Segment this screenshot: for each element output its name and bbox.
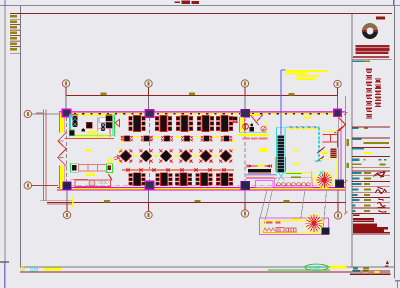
stair treads black — [278, 136, 285, 173]
B row line gray — [32, 113, 63, 115]
grid stems top: red above dim line, gray below — [66, 87, 338, 95]
red shelf bars — [323, 132, 338, 148]
basin white rect — [99, 118, 106, 123]
A row line red — [32, 185, 59, 187]
empty magenta counter box — [256, 180, 274, 187]
row y138 — [352, 137, 390, 139]
svg-text:比例: 比例 — [30, 266, 39, 273]
annex red text marks — [266, 222, 273, 224]
yellow inner outline — [263, 220, 321, 233]
left wall yellow strip (lower) — [60, 166, 64, 190]
top wall black mullion ticks — [74, 113, 333, 115]
right wall door red diagonals — [335, 118, 346, 134]
small black block bottom-left of suite — [70, 130, 75, 135]
inner red frame bottom — [20, 271, 390, 273]
suite bottom lines — [74, 134, 110, 136]
magenta outline — [260, 218, 329, 235]
row3 diamond tables — [119, 149, 132, 162]
closet black cabinet with X — [72, 116, 77, 127]
yellow edge dashes left of shaft — [274, 131, 276, 141]
red inner vline — [243, 119, 245, 131]
row4 top red chair-line with yellow dashes — [130, 169, 216, 171]
cyan dashed vertical wall — [318, 128, 320, 162]
top-right blue tick — [393, 0, 395, 6]
red scallop dishes — [263, 228, 297, 233]
yellow dash — [86, 174, 95, 176]
row2 yellow dashes — [120, 136, 235, 142]
red arrows — [114, 155, 121, 160]
column B4 top-right — [334, 109, 342, 116]
pink text row — [243, 137, 268, 139]
yellow circle symbol — [108, 159, 112, 163]
right wall — [338, 117, 340, 182]
olive label — [291, 176, 301, 178]
top wall yellow window band — [72, 113, 333, 115]
right cabinet blocks — [106, 116, 112, 122]
red slash — [108, 174, 112, 180]
top-left blue tick — [4, 0, 6, 6]
grid bubble 4 bottom — [334, 212, 341, 219]
column A2 — [145, 181, 154, 189]
left vertical dim double lines — [43, 110, 45, 201]
yellow top bar of shelf — [324, 131, 338, 133]
spiral stair starburst — [305, 215, 322, 232]
bottom dim texts — [104, 200, 110, 202]
yellow circle marker — [21, 266, 25, 270]
top wall magenta line — [59, 111, 345, 113]
yellow top dash — [292, 218, 301, 220]
section blue line — [280, 70, 282, 135]
red door diagonals inside kitchen — [317, 147, 324, 153]
yellow solid dash — [88, 131, 98, 133]
column B1 top-left — [62, 109, 71, 116]
vertical project text col1 — [366, 69, 381, 119]
column A1 bottom-left — [63, 182, 71, 190]
outer top gray line — [0, 5, 400, 7]
grid bubble 1 bottom — [63, 211, 70, 218]
column B2 — [145, 110, 154, 117]
bottom-right purple corner — [395, 280, 400, 282]
row olive pair — [353, 163, 362, 165]
red stepped stamp blocks — [353, 215, 390, 234]
suite right cyan+green border — [112, 115, 114, 136]
green scale stadium — [305, 264, 328, 270]
signature table rows — [352, 171, 390, 214]
grid bubble A left — [24, 182, 31, 189]
yellow dashes kitchen — [293, 149, 299, 151]
top wall lavender line — [59, 110, 345, 112]
logo ring: bottom black half — [362, 31, 378, 39]
yellow bar — [364, 152, 371, 154]
red lamp symbol circle — [243, 124, 249, 130]
person half-circle symbol — [81, 129, 85, 132]
bottom wall — [57, 186, 345, 188]
grid bubble 2 top — [145, 80, 152, 87]
logo mid red stripe — [362, 30, 367, 32]
top dim texts — [101, 93, 107, 95]
left paper edge line — [4, 0, 6, 288]
yellow room outline — [241, 117, 266, 134]
bench pink segments — [79, 164, 107, 171]
row y127 — [352, 126, 390, 128]
bottom-left purple line — [4, 262, 6, 288]
red triangle door — [115, 119, 119, 126]
left legend column — [10, 15, 20, 53]
yellow dot mid-left — [86, 149, 92, 152]
vertical project text col2 — [375, 78, 381, 79]
yellow bar left of block — [322, 151, 328, 154]
grid bubble 3 top — [241, 80, 248, 87]
yellow section tick bottom-left — [72, 197, 74, 208]
cyan ticks over wheel — [319, 171, 325, 176]
row y147.5 — [352, 146, 390, 148]
stair shaft olive lower edges — [275, 157, 277, 172]
yellow vertical near right wall — [336, 160, 338, 180]
logo ring: top tan half — [362, 23, 378, 31]
underline + teal/olive bar — [352, 59, 391, 61]
yellow vertical — [323, 132, 325, 161]
signature scribbles — [374, 172, 388, 212]
black hydrant symbol — [250, 127, 255, 131]
yellow top line of suite — [78, 115, 105, 117]
right cabinet olive bar — [106, 114, 112, 115]
long olive bar — [364, 142, 390, 144]
bottom-left black tick — [0, 261, 9, 263]
A row dashed line through plan — [62, 185, 334, 187]
red partition lines — [98, 118, 110, 137]
bottom title rows — [353, 268, 358, 270]
yellow bar left — [44, 267, 62, 270]
row3 yellow dashes — [118, 149, 236, 163]
cyan+yellow bottom — [315, 160, 323, 162]
company red text lines — [353, 45, 390, 58]
svg-text:1:150: 1:150 — [309, 265, 321, 270]
stair bottom cyan X arrow — [278, 172, 284, 181]
row y156.5 — [352, 155, 390, 157]
small red north arrow — [386, 260, 390, 264]
grid bubble 4 top — [334, 80, 341, 87]
green seat box left — [70, 163, 78, 172]
corridor wall band below bar — [246, 175, 277, 178]
leader lines gray — [260, 190, 327, 227]
green left border — [239, 117, 241, 133]
green bottom line — [240, 132, 267, 134]
grid stems bottom — [67, 202, 338, 211]
right vertical dim line — [345, 96, 347, 213]
door swing red diagonals — [251, 115, 263, 125]
yellow top dashes — [251, 114, 260, 116]
top dimension line — [66, 95, 338, 97]
row4 6-seat tables bottom — [129, 173, 145, 186]
stair shaft cyan border — [276, 127, 285, 172]
green seat box right — [107, 164, 113, 173]
thick yellow band below — [238, 134, 269, 136]
column B3 — [241, 109, 250, 116]
annex column navy — [321, 228, 329, 235]
left wall yellow strip (upper) — [60, 113, 64, 133]
frame left gray line — [20, 6, 22, 268]
row2 square 4-seat tables — [121, 136, 133, 142]
bottom dim second tier left — [40, 200, 73, 202]
row1 6-seat tables — [129, 116, 145, 132]
yellow dashes — [258, 163, 260, 165]
grid bubble B left — [24, 110, 31, 117]
zigzag gray ticks — [58, 141, 64, 158]
grid bubble 2 bottom — [145, 211, 152, 218]
service counter — [75, 180, 110, 186]
frame bottom gray line — [20, 266, 395, 268]
green underline — [268, 269, 330, 271]
column A4 bottom-right — [336, 180, 344, 188]
cyan top wall — [286, 126, 320, 128]
frame right gray line — [394, 6, 396, 279]
title block separator gray — [351, 14, 353, 268]
desk black block — [86, 122, 92, 128]
pink outline around dishes — [275, 178, 313, 187]
column A3 — [241, 181, 250, 189]
suite left green+cyan border — [69, 114, 71, 137]
yellow/green verticals left of wheel — [312, 171, 314, 183]
toilet hatched symbol — [101, 123, 105, 131]
left wall red zigzag door — [58, 133, 66, 167]
inner red frame top — [10, 13, 392, 15]
CDI small red text — [376, 17, 385, 20]
bottom dimension line — [47, 201, 346, 203]
red wall ticks on top wall — [290, 126, 316, 128]
yellow block right of vestibule — [260, 148, 267, 152]
grid dashed verticals inside plan — [67, 117, 246, 188]
grid bubble 3 bottom — [241, 210, 248, 217]
yellow bar right — [330, 266, 347, 269]
dark hatched shelf block — [331, 149, 337, 159]
top-center red filename text — [175, 0, 200, 4]
yellow companion top — [287, 128, 319, 130]
circled symbol — [261, 126, 266, 131]
grid bubble 1 top — [62, 80, 69, 87]
olive bar over closet — [72, 114, 78, 116]
